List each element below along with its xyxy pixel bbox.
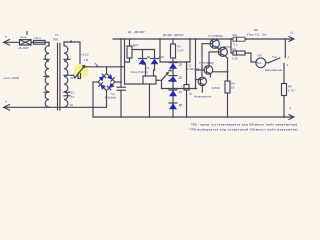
svg-text:1К: 1К <box>231 85 235 89</box>
node: top output arrow <box>289 37 294 42</box>
diode bridge Д1-Д4 <box>98 74 115 91</box>
wire <box>31 41 34 43</box>
svg-text:Сеть: Сеть <box>20 35 27 39</box>
svg-text:~Сеть 220В: ~Сеть 220В <box>3 76 19 80</box>
svg-text:+13,2: +13,2 <box>81 53 89 57</box>
wire to transformer primary <box>45 42 49 46</box>
node a (mains input arrow, top) <box>4 40 10 46</box>
transformer T1 primary winding <box>45 42 49 107</box>
svg-text:*R3 - щели, изготавливается: *R3 - щели, изготавливается под ХХ(мкост… <box>191 123 297 127</box>
svg-text:ТВК: ТВК <box>53 38 59 42</box>
transformer T1 secondary winding <box>64 46 68 108</box>
wire: rail to switch contact 1 <box>284 39 286 57</box>
svg-text:Т7 КТ805А: Т7 КТ805А <box>208 34 223 38</box>
secondary tap 13 <box>64 91 70 93</box>
svg-text:+1: +1 <box>290 30 294 34</box>
svg-text:б: б <box>5 100 7 104</box>
node tick <box>96 65 98 67</box>
zener stack column <box>172 62 174 117</box>
wire: relay feed branch <box>125 39 144 84</box>
primary tap stubs <box>44 59 49 92</box>
svg-text:Rш: Rш <box>233 33 238 37</box>
svg-text:14: 14 <box>71 95 75 99</box>
wire: bridge bottom stub <box>106 91 108 108</box>
wire: bridge top stub <box>106 67 108 74</box>
junction dots middle <box>120 61 228 89</box>
wire: selector column <box>159 39 161 62</box>
resistor R4 <box>212 58 236 117</box>
svg-text:13: 13 <box>71 90 75 94</box>
resistor R9 <box>282 84 297 118</box>
wire: minus drop <box>92 82 94 117</box>
wire: relay to bottom rail <box>149 84 151 117</box>
wire: bottom AC line <box>4 106 107 108</box>
svg-text:Rд: Rд <box>233 47 237 51</box>
svg-text:мА: мА <box>257 61 261 65</box>
svg-text:Тпр: Тпр <box>272 55 277 59</box>
meter ИП (мА) <box>256 53 266 67</box>
switch Тпр <box>266 55 290 68</box>
svg-text:16: 16 <box>70 103 74 107</box>
selector switch B2 <box>161 67 172 81</box>
wire: bridge right stub <box>115 81 121 83</box>
node b (mains input arrow, bottom) <box>4 105 10 111</box>
svg-text:+: + <box>181 84 183 88</box>
node: bottom output arrow <box>289 115 294 120</box>
junction dots top rail <box>120 38 286 40</box>
resistor Rш (shunt, on rail) <box>233 33 246 47</box>
wire: selector to base line <box>161 80 163 88</box>
wire: top rail +U <box>113 38 293 40</box>
secondary tap 4 <box>64 58 70 60</box>
svg-text:4,7к**: 4,7к** <box>288 89 297 93</box>
wire: C1 branch <box>120 39 122 117</box>
svg-text:Т3 КТ808А: Т3 КТ808А <box>199 61 214 65</box>
svg-text:Напряжение: Напряжение <box>194 95 212 99</box>
wire: relay to selector <box>156 79 162 81</box>
wire: base line to T2 <box>162 88 197 90</box>
wire: bridge left stub to minus bus <box>93 81 98 83</box>
svg-text:Реле РЭС10: Реле РЭС10 <box>131 70 149 74</box>
secondary top tap wire to selector <box>64 42 80 64</box>
resistor R3 <box>171 39 185 62</box>
wire: diode pair loop <box>132 50 155 59</box>
relay P1 <box>131 66 157 84</box>
transistor T5 <box>209 45 231 63</box>
fuse Пр1 <box>34 40 46 44</box>
wire: T3 base feed <box>195 39 197 89</box>
diode Д10 <box>151 55 165 76</box>
svg-text:0,25: 0,25 <box>232 56 238 60</box>
svg-text:~В-220Г: ~В-220Г <box>18 46 30 50</box>
capacitor C1 <box>105 83 126 99</box>
plug connector Ш1 <box>20 40 32 45</box>
zener Д6 <box>169 76 183 82</box>
zener Д7 <box>169 90 183 96</box>
svg-text:Пр.1: Пр.1 <box>35 36 42 40</box>
wire: zener header <box>160 61 190 63</box>
zener Д5 <box>169 63 183 69</box>
svg-text:Д5-Д8 - Д814А*: Д5-Д8 - Д814А* <box>163 33 185 37</box>
svg-text:Д8: Д8 <box>179 103 183 107</box>
svg-text:Напряжение: Напряжение <box>265 68 283 72</box>
svg-text:Д1 - Д814БГ: Д1 - Д814БГ <box>128 30 145 34</box>
transformer core <box>58 44 60 111</box>
svg-text:Др1: Др1 <box>133 43 139 47</box>
wire: rectified AC top line <box>87 66 125 68</box>
secondary tap 10 <box>64 74 74 76</box>
svg-text:5,1К*: 5,1К* <box>177 49 185 53</box>
svg-text:(Пуск Х1)...Ом: (Пуск Х1)...Ом <box>247 32 267 36</box>
secondary tap 14 <box>64 95 70 97</box>
transistor T4 <box>202 34 223 77</box>
transistor T3 <box>199 61 228 77</box>
svg-text:Д6: Д6 <box>179 76 183 80</box>
wire: bottom rail <box>93 116 293 118</box>
svg-text:470х16в: 470х16в <box>105 95 117 99</box>
junction dots bottom rail <box>120 116 285 118</box>
highlighted selector switch B3 (yellow marker) <box>74 64 89 78</box>
wire: loop right leg <box>189 39 191 62</box>
resistor Rд <box>231 39 257 62</box>
resistor R2 (Др1) <box>125 39 139 62</box>
wire: contact 2 down to R9 <box>283 64 285 84</box>
svg-text:ИП: ИП <box>258 53 262 57</box>
capacitor C2 <box>181 62 200 117</box>
svg-text:Т1: Т1 <box>55 33 59 37</box>
transistor T2 <box>196 77 207 92</box>
svg-text:1 В: 1 В <box>84 58 89 62</box>
svg-text:Д7: Д7 <box>179 90 183 94</box>
svg-text:Д5: Д5 <box>179 63 183 67</box>
svg-text:**R9 выбирается под конкретный: **R9 выбирается под конкретный ХХ(мкост … <box>189 128 298 132</box>
svg-text:Д10: Д10 <box>159 55 165 59</box>
svg-text:3х56К: 3х56К <box>212 86 221 90</box>
diode Д9 <box>139 55 151 76</box>
svg-text:+: + <box>113 83 115 87</box>
svg-text:11: 11 <box>71 76 74 80</box>
zener Д8 <box>169 103 183 109</box>
wire: top AC input line <box>4 41 19 43</box>
